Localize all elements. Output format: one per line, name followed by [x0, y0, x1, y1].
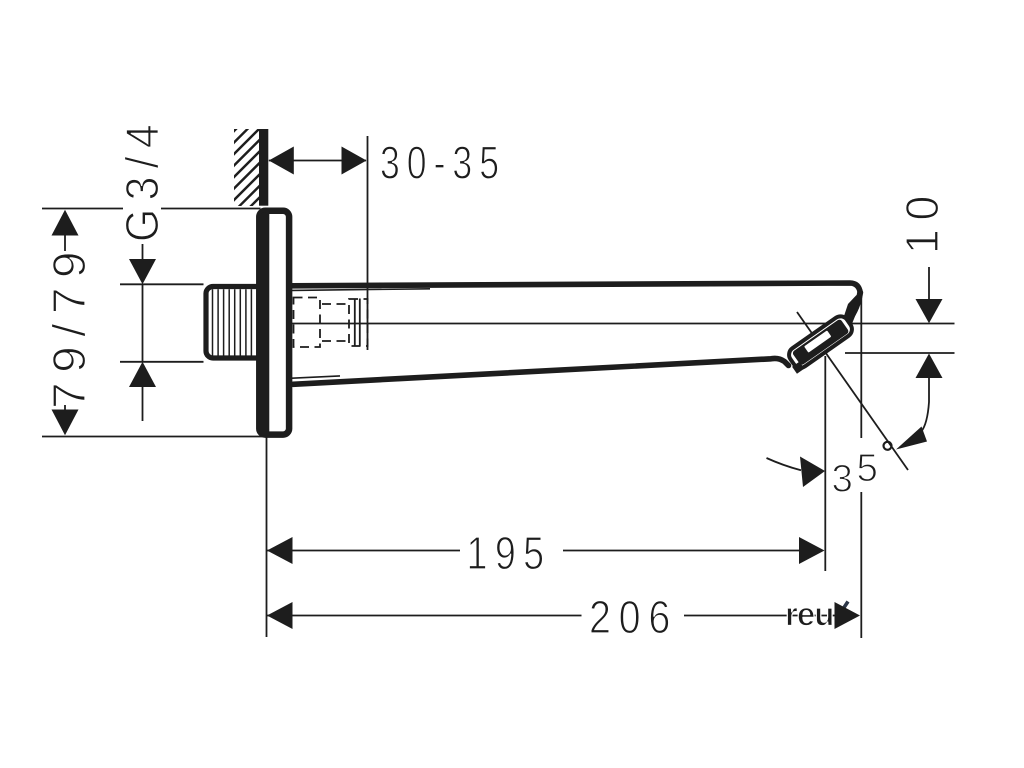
- 30-35 extension: [367, 136, 369, 350]
- svg-text:reu: reu: [785, 596, 833, 633]
- svg-text:206: 206: [589, 591, 678, 643]
- 10 lower extension: [845, 352, 955, 354]
- svg-text:10: 10: [896, 187, 948, 254]
- 10 bottom: [916, 354, 943, 379]
- 195 right: [799, 537, 825, 564]
- degree symbol: [884, 442, 892, 450]
- 35 arc right arrow: [896, 427, 927, 450]
- 195 extension right: [824, 356, 826, 571]
- thread G3/4 body: [206, 287, 264, 359]
- 79/79 bottom: [52, 410, 79, 436]
- aerator assembly: [844, 295, 862, 325]
- hidden connector dashed rect: [294, 298, 368, 348]
- G3/4 extensions: [120, 283, 204, 285]
- svg-text:30-35: 30-35: [380, 137, 506, 189]
- G3/4 dim line: [142, 244, 144, 259]
- 79/79 top extension: [42, 208, 123, 210]
- 30-35 dim line: [269, 160, 366, 162]
- hidden nipple double lines: [355, 299, 360, 347]
- 195 extension left: [266, 438, 268, 638]
- centerline: [270, 323, 955, 325]
- 35deg leader curve: [921, 402, 929, 432]
- thin extension / dimension lines: [42, 136, 955, 638]
- svg-text:3: 3: [832, 458, 853, 501]
- 35 deg face line: [797, 312, 908, 470]
- 30-35 right: [342, 147, 367, 175]
- 30-35 left: [269, 147, 294, 175]
- spout inner top line: [292, 289, 430, 291]
- 206 dim line: [267, 615, 582, 617]
- 79/79 bottom extension: [42, 436, 267, 438]
- spout tip face edge: [849, 293, 860, 320]
- 206 right arrow (over watermark): [835, 602, 861, 629]
- 195 dim line: [267, 550, 460, 552]
- 35deg left arc: [767, 458, 802, 470]
- wall hatching: [153, 128, 329, 212]
- 206 extension right: [860, 297, 862, 438]
- 10 dim line: [928, 267, 930, 300]
- arrowheads: [52, 147, 943, 630]
- svg-text:195: 195: [467, 527, 552, 579]
- svg-text:G3/4: G3/4: [116, 116, 168, 242]
- 35 arc left arrow: [800, 457, 825, 488]
- spout bottom edge: [293, 358, 789, 384]
- G3/4 top: [129, 259, 156, 284]
- spout top edge: [292, 283, 860, 293]
- flange escutcheon: [259, 211, 289, 435]
- G3/4 bottom: [129, 362, 156, 387]
- wall face line: [259, 129, 268, 206]
- svg-text:79/79: 79/79: [43, 242, 95, 409]
- 79/79 dim line: [64, 236, 66, 252]
- 10 top: [916, 299, 943, 323]
- 206 left: [267, 602, 293, 629]
- svg-text:5: 5: [857, 447, 878, 490]
- thread hatch: [213, 289, 258, 356]
- 79/79 top: [52, 210, 79, 236]
- 195 left: [267, 537, 293, 564]
